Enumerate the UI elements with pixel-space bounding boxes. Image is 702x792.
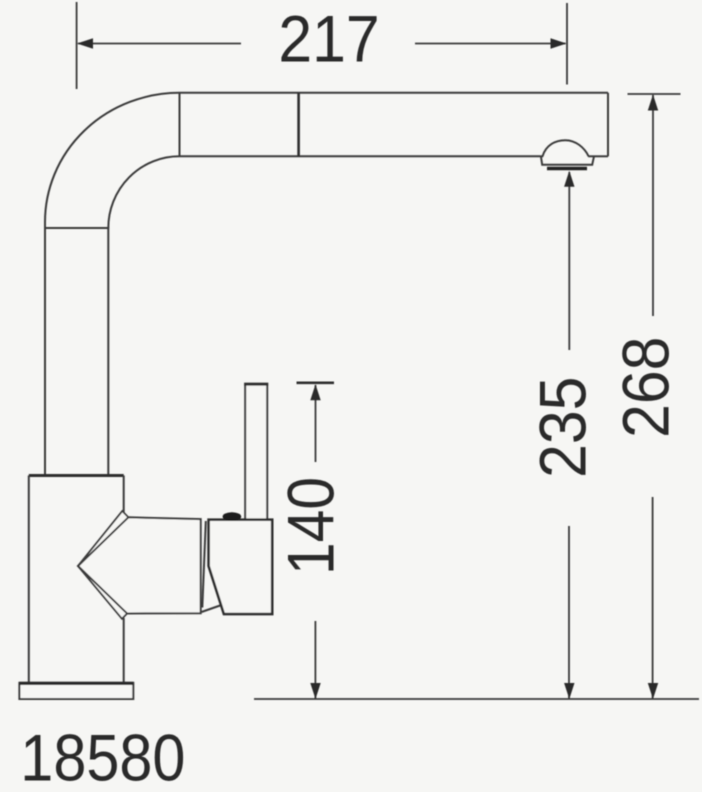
strip right edge: [202, 521, 206, 608]
riser left edge: [44, 221, 46, 476]
dim 217 line left segment: [78, 43, 241, 45]
faucet outer curve: [45, 93, 180, 222]
spout top line: [180, 92, 609, 94]
curve bottom joint line: [45, 227, 108, 229]
svg-text:268: 268: [610, 337, 683, 438]
dim 235 line upper segment: [568, 172, 570, 350]
dim 268 top extension line: [628, 93, 681, 95]
handle wedge pentagon: [78, 517, 201, 613]
base flange: [19, 683, 133, 699]
arrow 268 top: [648, 95, 658, 111]
handle lower sliver: [78, 566, 127, 619]
svg-text:217: 217: [278, 3, 379, 76]
dim 268 line lower segment: [652, 497, 654, 699]
spout bottom line: [180, 155, 541, 157]
spout right edge: [607, 93, 609, 157]
dim 268 line upper segment: [652, 95, 654, 316]
spout joint dark: [297, 93, 300, 157]
spout outlet dome: [543, 140, 589, 156]
body right edge upper: [123, 476, 125, 513]
outlet aerator dark bar: [547, 167, 587, 170]
arrow 235 top: [564, 171, 574, 187]
dim 140 line upper segment: [315, 385, 317, 462]
dims baseline: [254, 698, 699, 700]
arrow 140 bottom: [310, 683, 320, 699]
svg-text:140: 140: [274, 477, 348, 575]
arrow 140 top: [310, 384, 320, 400]
arrow 217 right: [551, 38, 567, 49]
button ellipse: [223, 512, 242, 521]
body left edge: [28, 476, 30, 683]
outlet left shoulder: [541, 155, 543, 157]
spout joint at curve end: [179, 93, 181, 157]
arrow 235 bottom: [564, 683, 574, 699]
rod top thick edge: [244, 383, 268, 386]
arrow 217 left: [77, 38, 93, 49]
dim 217 right extension line: [566, 3, 568, 85]
handle upper sliver: [78, 511, 128, 566]
handle rod (pull-out): [245, 384, 267, 520]
dim 140 top tick: [297, 381, 335, 384]
inner curve: [108, 156, 179, 228]
outlet right shoulder: [588, 155, 594, 157]
strip bottom connector: [202, 605, 222, 612]
arrow 268 bottom: [648, 683, 658, 699]
dim 217 line right segment: [415, 43, 566, 45]
svg-text:235: 235: [527, 377, 600, 478]
cartridge base body: [209, 520, 273, 614]
spout bottom right stub: [594, 155, 608, 157]
flange top thick edge: [19, 682, 133, 685]
dim 217 left extension line: [76, 2, 78, 89]
svg-text:18580: 18580: [20, 722, 185, 792]
dim 235 line lower segment: [568, 526, 570, 699]
riser right edge: [107, 227, 109, 476]
spout outlet trapezoid: [541, 156, 594, 165]
body right edge lower: [123, 618, 125, 683]
dim 140 line lower segment: [314, 621, 316, 699]
body top edge: [29, 474, 124, 477]
